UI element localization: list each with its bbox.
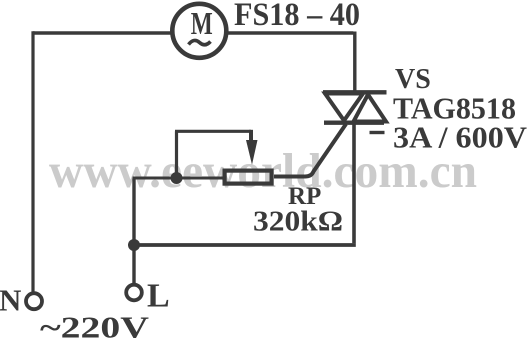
svg-text:M: M <box>191 6 213 41</box>
svg-text:N: N <box>0 283 21 318</box>
svg-text:FS18 – 40: FS18 – 40 <box>234 0 360 33</box>
svg-text:L: L <box>147 278 170 315</box>
svg-text:3A / 600V: 3A / 600V <box>393 121 527 155</box>
svg-text:VS: VS <box>395 64 431 95</box>
svg-text:320kΩ: 320kΩ <box>253 207 343 238</box>
svg-text:~220V: ~220V <box>40 310 150 341</box>
